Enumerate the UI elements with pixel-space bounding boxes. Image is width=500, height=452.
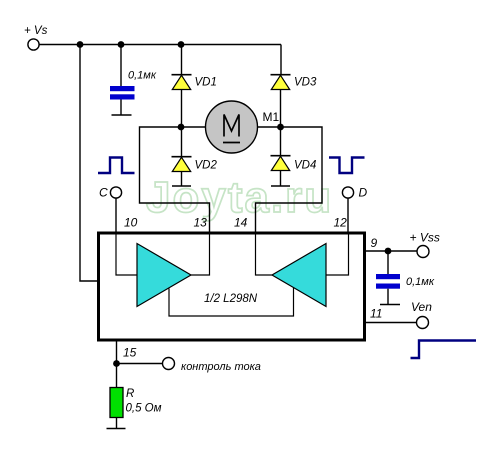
terminal D bbox=[342, 186, 367, 200]
wire VD3 bottom lead bbox=[280, 90, 282, 128]
node junction at x=121 bbox=[118, 41, 125, 48]
svg-text:VD3: VD3 bbox=[294, 77, 317, 89]
node motor right junction bbox=[277, 124, 284, 131]
svg-text:0,1мк: 0,1мк bbox=[128, 70, 157, 82]
wire motor right lead bbox=[258, 126, 281, 128]
ground bar under resistor bbox=[107, 428, 126, 430]
wire left supply drop to IC bbox=[80, 45, 98, 282]
wire VD2 anode lead bbox=[181, 172, 183, 186]
diode VD1 bbox=[172, 75, 217, 90]
node motor left junction bbox=[178, 124, 185, 131]
wire VD2 top lead bbox=[181, 127, 183, 157]
svg-text:10: 10 bbox=[124, 216, 138, 230]
node junction at x=80 bbox=[77, 41, 84, 48]
svg-text:12: 12 bbox=[334, 216, 348, 230]
ground bar under VD2 bbox=[172, 185, 191, 187]
wire cap C1 bottom lead bbox=[120, 100, 122, 115]
wire VD3 top lead bbox=[280, 45, 282, 75]
wire VD1 bottom lead bbox=[181, 90, 183, 128]
wire VD4 top lead bbox=[280, 127, 282, 156]
terminal current sense (kontrol toka) bbox=[163, 358, 261, 374]
wire pin15 down to resistor bbox=[116, 342, 118, 388]
wire pin12 internal bbox=[326, 234, 349, 275]
svg-text:+ Vs: + Vs bbox=[24, 25, 48, 37]
ground bar under C1 bbox=[112, 114, 132, 116]
svg-text:VD1: VD1 bbox=[195, 77, 217, 89]
wire pin13 internal bbox=[191, 234, 210, 275]
terminal C bbox=[99, 186, 122, 200]
wire cap C2 bottom lead bbox=[387, 289, 389, 304]
wire resistor bottom lead bbox=[116, 418, 118, 429]
resistor R 0,5 Om bbox=[110, 388, 162, 418]
waveform inverted pulse at D input bbox=[329, 158, 365, 174]
svg-text:VD2: VD2 bbox=[195, 160, 218, 172]
svg-text:D: D bbox=[359, 186, 368, 200]
svg-text:0,1мк: 0,1мк bbox=[406, 276, 435, 288]
svg-text:+ Vss: + Vss bbox=[410, 231, 440, 245]
wire pin10 internal bbox=[116, 234, 137, 275]
terminal Ven bbox=[411, 300, 432, 329]
wire cap C1 top lead bbox=[120, 45, 122, 87]
wire bridge right branch to pin14 bbox=[256, 127, 323, 232]
svg-text:15: 15 bbox=[123, 346, 137, 360]
svg-text:11: 11 bbox=[370, 307, 382, 321]
terminal +Vss bbox=[410, 231, 440, 258]
capacitor C2 0,1mk bbox=[376, 274, 435, 289]
wire bridge left branch to pin13 bbox=[140, 127, 210, 232]
svg-text:9: 9 bbox=[371, 236, 378, 250]
svg-text:M1: M1 bbox=[263, 110, 280, 124]
capacitor C1 0,1mk bbox=[110, 70, 157, 100]
wire top rail bbox=[39, 44, 281, 46]
wire pin11 to Ven bbox=[366, 322, 417, 324]
node junction pin9 bbox=[385, 248, 392, 255]
svg-text:Ven: Ven bbox=[411, 300, 432, 314]
svg-text:13: 13 bbox=[194, 216, 208, 230]
ground bar under C2 bbox=[380, 304, 400, 306]
op-amp U1 IC body 1/2 L298N bbox=[99, 233, 365, 340]
op-amp buffer B (right, pointing left) bbox=[272, 244, 326, 307]
wire to current sense terminal bbox=[117, 363, 163, 365]
diode VD3 bbox=[271, 75, 317, 90]
svg-text:0,5 Ом: 0,5 Ом bbox=[126, 403, 162, 415]
svg-text:C: C bbox=[99, 186, 108, 200]
svg-text:контроль тока: контроль тока bbox=[181, 361, 261, 373]
svg-text:VD4: VD4 bbox=[294, 160, 316, 172]
ground bar under VD4 bbox=[271, 185, 290, 187]
svg-text:1/2 L298N: 1/2 L298N bbox=[204, 293, 258, 305]
op-amp buffer A (left, pointing right) bbox=[137, 244, 191, 307]
node junction pin15 bbox=[113, 360, 120, 367]
wire D to pin12 bbox=[347, 198, 349, 232]
diode VD4 bbox=[271, 156, 317, 172]
wire VD1 top lead bbox=[181, 45, 183, 75]
wire pin14 internal bbox=[256, 234, 273, 275]
wire internal emitter bus to sense bbox=[169, 288, 294, 316]
waveform pulse at C input bbox=[98, 158, 135, 174]
wire cap C2 top lead bbox=[387, 251, 389, 274]
wire motor left lead bbox=[181, 126, 206, 128]
svg-text:14: 14 bbox=[234, 216, 248, 230]
waveform enable step bbox=[411, 341, 477, 359]
node junction at x=181 bbox=[178, 41, 185, 48]
terminal +Vs bbox=[24, 25, 48, 50]
wire C to pin10 bbox=[115, 198, 117, 232]
wire VD4 anode lead bbox=[280, 171, 282, 186]
svg-text:R: R bbox=[126, 388, 134, 400]
motor M1 bbox=[206, 101, 280, 153]
wire pin9 to Vss bbox=[366, 250, 417, 252]
diode VD2 bbox=[172, 157, 218, 172]
